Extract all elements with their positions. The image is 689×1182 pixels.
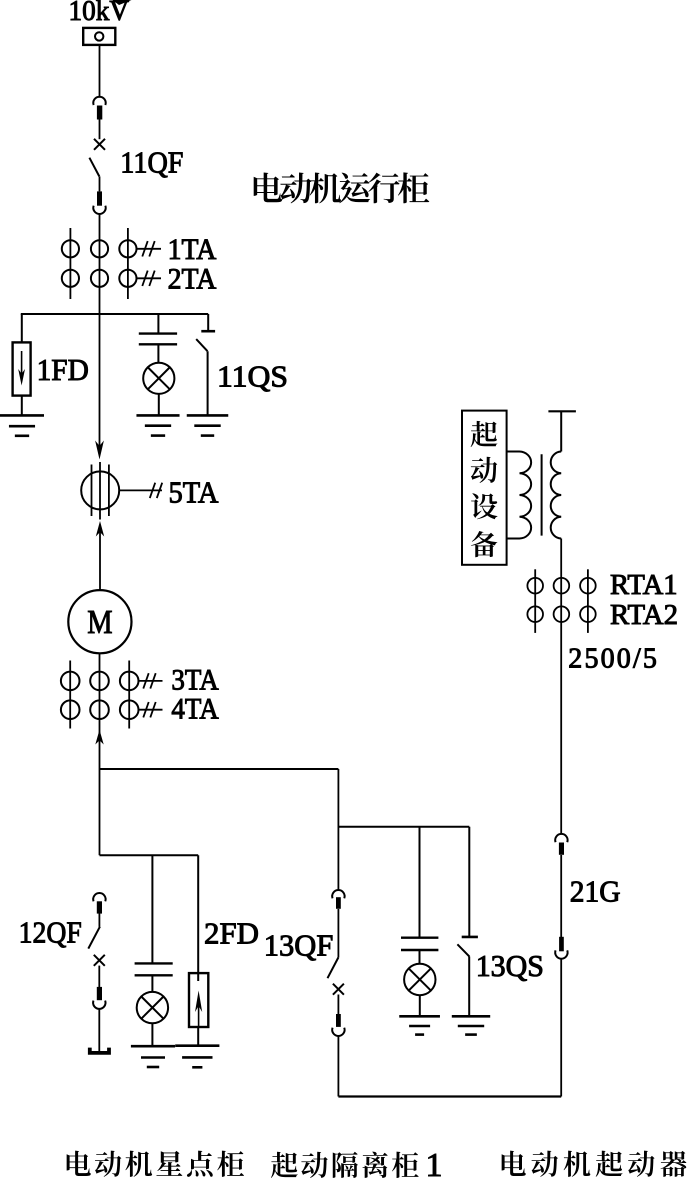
svg-text:1FD: 1FD	[37, 352, 89, 387]
svg-text:11QF: 11QF	[120, 145, 183, 180]
svg-text:21G: 21G	[570, 873, 621, 908]
svg-text:12QF: 12QF	[19, 915, 82, 950]
svg-text:2FD: 2FD	[204, 916, 259, 951]
svg-text:RTA2: RTA2	[610, 599, 678, 631]
svg-text:2TA: 2TA	[168, 262, 217, 295]
svg-text:13QS: 13QS	[476, 948, 544, 983]
svg-text:10kV: 10kV	[69, 0, 130, 27]
svg-text:1TA: 1TA	[168, 233, 217, 266]
svg-text:RTA1: RTA1	[610, 569, 678, 601]
svg-text:13QF: 13QF	[264, 928, 334, 963]
svg-text:5TA: 5TA	[169, 475, 220, 510]
svg-text:2500/5: 2500/5	[568, 644, 657, 675]
svg-text:1: 1	[426, 1147, 443, 1182]
svg-text:11QS: 11QS	[217, 359, 288, 394]
svg-text:4TA: 4TA	[171, 693, 219, 726]
svg-text:M: M	[87, 604, 112, 641]
